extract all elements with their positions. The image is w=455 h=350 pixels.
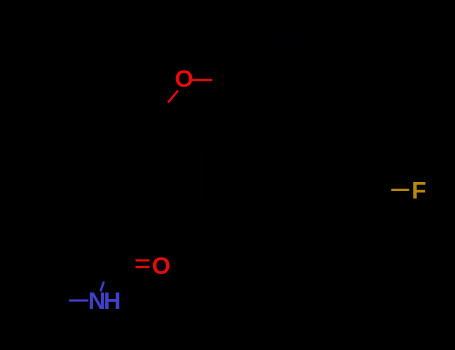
- blue half-bond: N up to carbonyl C: [101, 282, 104, 290]
- wire: carbonyl C to N dark half: [104, 264, 110, 282]
- svg-text:NH: NH: [88, 288, 119, 315]
- wire: ring B to fluorophenyl: [258, 127, 286, 143]
- wire: ring A to carbonyl C: [111, 232, 154, 263]
- wire: ring A to fluorophenyl: [201, 190, 259, 205]
- wire: N-CH3 dark half: [43, 300, 70, 302]
- wire: ring A to ether O: [154, 94, 176, 124]
- wire: ether O to ring B: [211, 79, 231, 81]
- red half of C=O double bond: [136, 259, 150, 261]
- benzene ring A (central aryl): [107, 124, 201, 232]
- svg-text:O: O: [152, 253, 171, 280]
- blue half-bond: N to CH3: [70, 299, 88, 301]
- benzene ring B (aryloxy phenyl): [231, 33, 339, 127]
- carbonyl C=O dark halves: [111, 259, 136, 261]
- orange half-bond: F to ring: [392, 189, 408, 191]
- benzene ring C (4-fluorophenyl): [259, 143, 367, 237]
- svg-text:O: O: [175, 66, 194, 93]
- red half-bond: ether O down-left: [169, 91, 178, 102]
- svg-text:F: F: [412, 178, 427, 205]
- red half-bond: ether O to right: [193, 79, 212, 81]
